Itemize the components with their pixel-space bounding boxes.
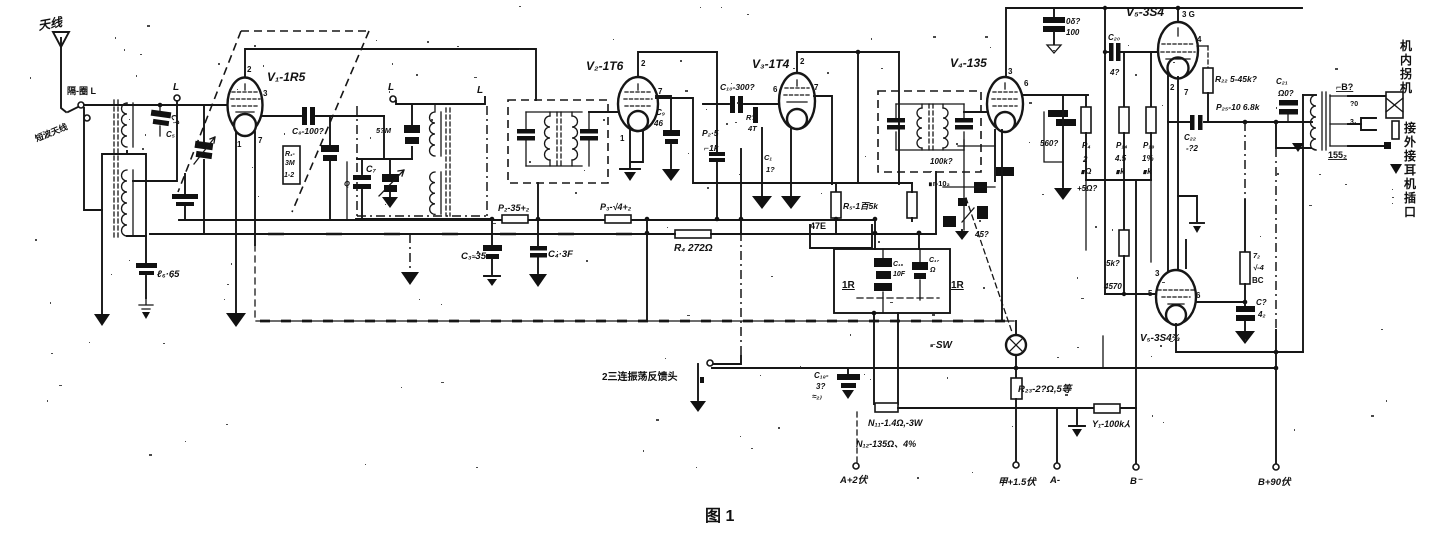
- wire junction Y1 to Y3: [646, 220, 648, 321]
- svg-text:C₉: C₉: [656, 108, 665, 117]
- capacitor C13 blobs: [1044, 110, 1076, 162]
- svg-text:1R: 1R: [842, 280, 856, 291]
- IF2 internal bottom wire: [896, 149, 964, 151]
- wire V3 cathode grounds: [762, 128, 791, 195]
- svg-text:P₁₄: P₁₄: [1116, 141, 1127, 150]
- svg-text:2: 2: [1170, 83, 1175, 92]
- svg-text:5k?: 5k?: [1106, 259, 1120, 268]
- terminal shortwave jack: [84, 115, 90, 121]
- label C21: [1276, 77, 1294, 98]
- svg-text:耳: 耳: [1404, 163, 1416, 177]
- svg-text:≈₂₎: ≈₂₎: [812, 392, 822, 401]
- ground under V3 left: [752, 196, 772, 209]
- svg-text:N₁₂-135Ω、4%: N₁₂-135Ω、4%: [856, 439, 916, 449]
- padder capacitor blob: [404, 104, 420, 159]
- resistor R5: [831, 184, 841, 233]
- svg-text:46: 46: [653, 119, 663, 128]
- battery box bottom dashes: [857, 297, 939, 299]
- svg-text:隔-圈 L: 隔-圈 L: [67, 85, 96, 96]
- IF2 transformer dashed box: [878, 91, 981, 172]
- node bus junctions: [645, 217, 878, 236]
- IF1 core dashed: [557, 112, 561, 168]
- tube V4 envelope: [987, 77, 1023, 132]
- capacitor C3: [483, 217, 502, 286]
- capacitor C22 series: [1190, 115, 1203, 130]
- svg-text:2: 2: [247, 65, 252, 74]
- resistor R6: [907, 183, 917, 221]
- label 机内喇叭 vertical: [1400, 38, 1412, 95]
- svg-text:L: L: [477, 85, 483, 96]
- trimmer capacitor C1a: [133, 101, 181, 181]
- capacitor C7: [353, 159, 371, 219]
- IF2 primary winding: [917, 104, 922, 150]
- svg-text:4T: 4T: [747, 124, 758, 133]
- svg-text:C₂₁: C₂₁: [1276, 77, 1288, 86]
- svg-text:⌐1k: ⌐1k: [704, 143, 720, 153]
- wire grid bus y=105: [84, 104, 227, 106]
- output transformer core: [1322, 92, 1326, 150]
- svg-text:3: 3: [1155, 269, 1160, 278]
- svg-text:3?: 3?: [816, 382, 825, 391]
- svg-text:10F: 10F: [893, 271, 906, 278]
- oscillator coil upper winding: [430, 104, 442, 156]
- svg-text:R₁-: R₁-: [285, 151, 296, 158]
- wire grid cap C11 to bus: [709, 52, 725, 221]
- svg-text:接: 接: [1404, 148, 1416, 163]
- main bus Y3 dashed: [256, 320, 1014, 322]
- svg-text:ℓ₆·65: ℓ₆·65: [157, 269, 180, 280]
- svg-text:C₁₈-: C₁₈-: [814, 371, 829, 380]
- resistor R3 with label: [746, 107, 758, 133]
- IF2 secondary winding: [943, 104, 948, 150]
- tube V5b envelope: [1156, 270, 1196, 325]
- svg-text:∎Ω: ∎Ω: [1080, 167, 1092, 176]
- node bottom junction: [872, 311, 877, 316]
- wire B plus line right vertical: [1302, 95, 1304, 352]
- svg-text:B+90伏: B+90伏: [1258, 476, 1292, 488]
- node 1276 crossings: [1274, 350, 1279, 371]
- svg-text:100: 100: [1066, 28, 1080, 37]
- wire B plus vertical: [898, 52, 900, 184]
- svg-text:3M: 3M: [285, 160, 295, 167]
- capacitor C5 blob: [151, 105, 172, 136]
- tuning gang dashed link left: [178, 31, 241, 192]
- small box above: [810, 225, 872, 248]
- svg-text:4: 4: [1197, 35, 1202, 44]
- ground under V3 right: [781, 196, 801, 209]
- wire IF2 to V4 grid: [964, 111, 987, 113]
- variable capacitor C1 main with arrow: [194, 105, 215, 233]
- wire V5a top pin: [1177, 8, 1179, 22]
- ground left: [94, 314, 110, 326]
- wire antenna to terminal: [68, 107, 78, 112]
- label P14: [1114, 141, 1127, 176]
- terminal antenna jack: [78, 102, 84, 108]
- svg-text:6: 6: [1196, 291, 1201, 300]
- wire A+ dashed drop: [856, 412, 858, 462]
- IF2 internal top wire: [896, 103, 964, 105]
- IF1 primary winding: [545, 112, 551, 166]
- svg-text:P₂-35+₂: P₂-35+₂: [498, 203, 530, 213]
- svg-text:7: 7: [258, 136, 263, 145]
- svg-text:A+2伏: A+2伏: [839, 474, 869, 486]
- svg-text:47E: 47E: [810, 221, 826, 231]
- antenna symbol: [53, 32, 69, 112]
- svg-text:0δ?: 0δ?: [1066, 17, 1080, 26]
- capacitor C2b bars: [172, 174, 198, 219]
- svg-text:R₅-1百5k: R₅-1百5k: [843, 201, 879, 211]
- svg-text:甲+1.5伏: 甲+1.5伏: [998, 476, 1037, 488]
- label P13: [1080, 141, 1092, 176]
- wire V2 plate right and down: [656, 98, 912, 183]
- svg-text:插: 插: [1404, 190, 1416, 205]
- svg-text:R₄ 272Ω: R₄ 272Ω: [674, 243, 713, 254]
- IF2 core dashed: [929, 104, 933, 152]
- svg-text:Ω: Ω: [929, 267, 936, 274]
- wire detector network: [943, 140, 995, 230]
- wire V5a filament verticals to V5b: [1168, 76, 1186, 272]
- node top bus V5a: [1176, 6, 1181, 11]
- svg-text:R₂₂ 5-45k?: R₂₂ 5-45k?: [1215, 74, 1258, 84]
- tube V1 envelope: [228, 78, 263, 137]
- svg-text:⌐B?: ⌐B?: [1336, 82, 1353, 92]
- svg-text:2三连振荡反馈头: 2三连振荡反馈头: [602, 370, 678, 383]
- svg-text:1: 1: [620, 134, 625, 143]
- battery box: [834, 249, 950, 313]
- wire long vertical from top bus: [1104, 8, 1106, 294]
- svg-text:1?: 1?: [766, 165, 775, 174]
- svg-text:155₂: 155₂: [1328, 150, 1347, 160]
- ground under pot: [955, 230, 969, 240]
- speaker: [1384, 92, 1403, 149]
- wire C2 aux drop: [346, 162, 348, 220]
- resistor R4 272 inline: [647, 230, 741, 238]
- tube V5a envelope: [1158, 22, 1198, 79]
- node junctions on 122: [1243, 120, 1279, 125]
- svg-text:1R: 1R: [951, 280, 965, 291]
- svg-text:560?: 560?: [1040, 139, 1058, 148]
- wire screen feed vertical: [857, 52, 859, 183]
- small arrow on 148 wire: [1292, 143, 1304, 152]
- svg-text:2: 2: [1082, 155, 1088, 164]
- IF1 left capacitor: [517, 112, 535, 166]
- capacitor C16 blobs: [874, 249, 906, 313]
- resistor R23 vertical: [1011, 368, 1022, 462]
- wire V3 top pin to top bus: [797, 52, 899, 73]
- wire output line y=122: [1168, 121, 1312, 123]
- svg-text:内: 内: [1400, 52, 1412, 67]
- svg-text:V₅-3S4⅔: V₅-3S4⅔: [1140, 333, 1180, 344]
- node top bus junction: [856, 50, 861, 55]
- node junction: [158, 103, 163, 108]
- antenna coil primary winding: [122, 103, 133, 147]
- resistor P15: [1146, 52, 1156, 180]
- terminal feedback: [707, 360, 713, 366]
- terminal A+: [853, 463, 859, 469]
- wire V1 screen right y=116: [263, 115, 301, 117]
- svg-text:3: 3: [1008, 67, 1013, 76]
- capacitor C8 series: [302, 107, 384, 125]
- wire V4 plate side components: [1022, 94, 1088, 96]
- label C11: [764, 153, 775, 174]
- arrow to jack: [1390, 164, 1402, 174]
- grid wire V5b: [1105, 293, 1156, 295]
- svg-text:∎r-10₂: ∎r-10₂: [928, 179, 950, 188]
- svg-text:1%: 1%: [1142, 154, 1154, 163]
- wire V1 plate to IF1: [245, 49, 536, 100]
- capacitor C24: [1235, 302, 1255, 344]
- IF1 internal bottom wire: [526, 165, 582, 167]
- resistor R11 horizontal: [875, 403, 898, 412]
- ground small under C6: [139, 298, 153, 319]
- svg-text:1: 1: [237, 140, 242, 149]
- wire osc bottom: [356, 218, 493, 220]
- resistor R1 box: [283, 146, 300, 184]
- terminal B minus: [1133, 464, 1139, 470]
- wire V4 cathode down: [995, 130, 1002, 321]
- variable capacitor C1b osc with arrow: [379, 159, 404, 208]
- volume pot blobs: [943, 167, 1014, 227]
- wire A minus: [1056, 409, 1058, 463]
- svg-text:接: 接: [1404, 120, 1416, 135]
- capacitor C19 to ground: [1043, 8, 1065, 53]
- wire osc top: [396, 97, 485, 104]
- wire feedback dash vertical: [714, 149, 741, 364]
- terminal B+90: [1273, 464, 1279, 470]
- resistor 560k vertical: [1054, 95, 1072, 200]
- wire V5b plate to C24: [1196, 301, 1245, 303]
- capacitor C6: [136, 263, 157, 298]
- capacitor C21: [1279, 100, 1298, 122]
- terminal 1.5V: [1013, 462, 1019, 468]
- wire branch 1245 down: [1244, 122, 1246, 252]
- svg-text:C₄·3F: C₄·3F: [548, 249, 573, 260]
- wire V2 top pin: [638, 52, 717, 77]
- tuning gang dashed link top: [241, 30, 369, 32]
- wire box bottom leads: [874, 313, 898, 404]
- svg-text:口: 口: [1404, 205, 1416, 219]
- node box top junction: [873, 219, 878, 249]
- resistor R22: [1197, 46, 1213, 122]
- resistor P14: [1119, 52, 1129, 180]
- IF1 secondary winding: [572, 112, 578, 166]
- wire V3 plate right: [814, 96, 832, 184]
- ground bar under V2: [620, 169, 640, 181]
- svg-text:C₅: C₅: [166, 130, 175, 139]
- node lamp junction: [1014, 366, 1019, 371]
- label 接外接耳机插口 vertical: [1404, 120, 1416, 219]
- wire filament ground branch: [1178, 196, 1204, 233]
- svg-text:外: 外: [1404, 134, 1416, 149]
- speaker wires: [1348, 96, 1386, 146]
- wire resistor bottoms y=180: [1086, 179, 1151, 181]
- svg-text:C₈-100?: C₈-100?: [292, 126, 325, 136]
- ground on 409 line: [1069, 408, 1085, 437]
- svg-text:拐: 拐: [1400, 66, 1412, 81]
- svg-text:Ω0?: Ω0?: [1277, 89, 1294, 98]
- capacitor C20 series: [1105, 43, 1159, 61]
- svg-text:C₂₀: C₂₀: [1108, 33, 1120, 42]
- label C19 value: [1066, 17, 1080, 37]
- svg-text:C₁: C₁: [764, 153, 772, 162]
- IF1 internal top wire: [526, 111, 582, 113]
- label C18: [812, 371, 829, 401]
- svg-text:V₃-1T4: V₃-1T4: [752, 57, 790, 71]
- svg-text:A-: A-: [1049, 475, 1060, 486]
- wire IF1 to V2 grid: [589, 111, 618, 113]
- osc box bottom dash: [357, 106, 487, 216]
- svg-text:机: 机: [1400, 80, 1412, 95]
- svg-text:P₁₈: P₁₈: [1143, 141, 1154, 150]
- svg-text:机: 机: [1400, 38, 1412, 53]
- svg-text:4.5: 4.5: [1114, 154, 1127, 163]
- oscillator coil lower winding: [430, 172, 441, 214]
- oscillator terminal L: [390, 96, 396, 102]
- antenna coil core dashed: [114, 100, 118, 240]
- capacitor C4: [529, 183, 547, 287]
- output transformer primary winding: [1303, 95, 1316, 150]
- wire coil bottom to C6: [127, 235, 146, 237]
- capacitor C18: [837, 368, 860, 399]
- svg-text:+5Ω?: +5Ω?: [1077, 184, 1097, 193]
- svg-text:6: 6: [773, 85, 778, 94]
- capacitor C17 blob: [912, 249, 940, 300]
- IF2 right capacitor: [955, 104, 973, 150]
- svg-text:7: 7: [1184, 88, 1189, 97]
- svg-text:3 G: 3 G: [1182, 10, 1195, 19]
- wire bottom bus y=368: [712, 367, 1276, 369]
- label P2.5 11k: [702, 128, 720, 153]
- earphone jack: [1361, 118, 1376, 130]
- svg-text:L: L: [173, 82, 179, 93]
- svg-text:6: 6: [1024, 79, 1029, 88]
- label C9-46: [653, 108, 665, 128]
- wire 1276 branch down: [1276, 122, 1311, 464]
- resistor 5k vertical: [1119, 180, 1129, 296]
- svg-text:机: 机: [1404, 176, 1416, 191]
- svg-text:?0: ?0: [1350, 101, 1358, 108]
- svg-text:C₇: C₇: [366, 164, 376, 174]
- tuning gang dashed link right: [292, 31, 369, 212]
- tube V2 envelope: [618, 77, 658, 131]
- svg-text:⌐SW: ⌐SW: [930, 340, 954, 351]
- wire bottom line y=409: [898, 407, 1136, 409]
- svg-text:C₁₀-300?: C₁₀-300?: [720, 82, 755, 92]
- svg-text:B⁻: B⁻: [1130, 476, 1143, 487]
- ground below bus at x410: [401, 234, 419, 285]
- IF2 left capacitor: [887, 104, 905, 150]
- main bus Y1: [179, 219, 875, 221]
- svg-text:图 1: 图 1: [705, 507, 734, 525]
- svg-text:100k?: 100k?: [930, 157, 953, 166]
- svg-text:P₂₅-10 6.8k: P₂₅-10 6.8k: [1216, 102, 1261, 112]
- svg-text:-?2: -?2: [1186, 144, 1199, 153]
- label P15: [1142, 141, 1154, 176]
- terminal A minus: [1054, 463, 1060, 469]
- svg-text:V₄-135: V₄-135: [950, 56, 987, 70]
- svg-text:1-2: 1-2: [284, 172, 294, 179]
- svg-text:N₁₁-1.4Ω,-3W: N₁₁-1.4Ω,-3W: [868, 418, 924, 428]
- svg-text:R₂₃-2?Ω,5等: R₂₃-2?Ω,5等: [1018, 383, 1074, 395]
- wire coil lower left to ground: [102, 151, 146, 314]
- svg-text:4?: 4?: [1109, 68, 1119, 77]
- wire V1 cathode to ground: [235, 132, 237, 312]
- svg-text:7₂: 7₂: [1253, 251, 1260, 260]
- antenna coil secondary winding: [122, 170, 133, 236]
- svg-text:P₃-√4+₂: P₃-√4+₂: [600, 202, 632, 212]
- svg-text:V₂-1T6: V₂-1T6: [586, 59, 624, 73]
- resistor P3 inline: [605, 215, 631, 223]
- svg-text:∎k: ∎k: [1115, 167, 1125, 176]
- IF1 right capacitor: [580, 112, 598, 166]
- svg-text:45?: 45?: [974, 230, 989, 239]
- switch SW dashed link: [966, 198, 1012, 332]
- wire V1 pin7 down to bus: [254, 132, 256, 245]
- wire V4 plate to top bus: [1006, 8, 1302, 77]
- svg-text:7: 7: [814, 83, 819, 92]
- svg-text:P₄: P₄: [1082, 141, 1091, 150]
- pilot lamp: [1006, 321, 1026, 368]
- svg-text:C₂₂: C₂₂: [1184, 133, 1196, 142]
- svg-text:C?: C?: [1256, 298, 1267, 307]
- resistor R24 inline: [1094, 404, 1120, 413]
- capacitor C2 blob: [321, 116, 339, 219]
- wire B minus vertical: [1135, 180, 1137, 464]
- ground under padder: [357, 116, 412, 159]
- svg-text:4₂: 4₂: [1257, 310, 1266, 319]
- svg-text:V₁-1R5: V₁-1R5: [267, 70, 306, 84]
- wire V2 cathode to ground: [630, 130, 643, 168]
- resistor P2 inline: [502, 215, 528, 223]
- capacitor C9: [656, 96, 680, 181]
- tube V3 envelope: [779, 73, 815, 129]
- ground under V1: [226, 313, 246, 327]
- wire V5b cathode bottom: [1176, 324, 1303, 352]
- output transformer secondary: [1330, 95, 1348, 146]
- svg-text:3: 3: [263, 89, 268, 98]
- svg-text:BC: BC: [1252, 276, 1264, 285]
- terminal L node: [174, 95, 180, 101]
- svg-text:Y₁-100k⅄: Y₁-100k⅄: [1092, 419, 1130, 429]
- resistor P13: [1081, 95, 1091, 180]
- svg-text:2: 2: [800, 57, 805, 66]
- label C24: [1256, 298, 1267, 319]
- resistor R26: [1240, 252, 1250, 302]
- svg-text:C₁₇: C₁₇: [929, 257, 940, 264]
- svg-text:∎k: ∎k: [1142, 167, 1152, 176]
- capacitor C10 series: [703, 96, 779, 113]
- wire coil left loop: [84, 108, 102, 210]
- oscillator coil core dashed: [446, 108, 450, 216]
- main bus Y2: [150, 233, 936, 235]
- svg-text:V₅-3S4: V₅-3S4: [1126, 5, 1164, 19]
- svg-text:C₁₆: C₁₆: [893, 261, 904, 268]
- svg-text:2: 2: [641, 59, 646, 68]
- ground under feedback: [690, 364, 706, 412]
- label R26 BC: [1252, 251, 1265, 285]
- svg-text:7: 7: [658, 87, 663, 96]
- label C22: [1184, 133, 1199, 153]
- node plate junction: [1243, 300, 1248, 305]
- IF1 transformer dashed box: [508, 100, 608, 183]
- svg-text:√-4: √-4: [1253, 263, 1265, 272]
- svg-text:L: L: [388, 82, 394, 93]
- svg-text:P₂·5: P₂·5: [702, 128, 719, 138]
- svg-text:4570: 4570: [1103, 282, 1122, 291]
